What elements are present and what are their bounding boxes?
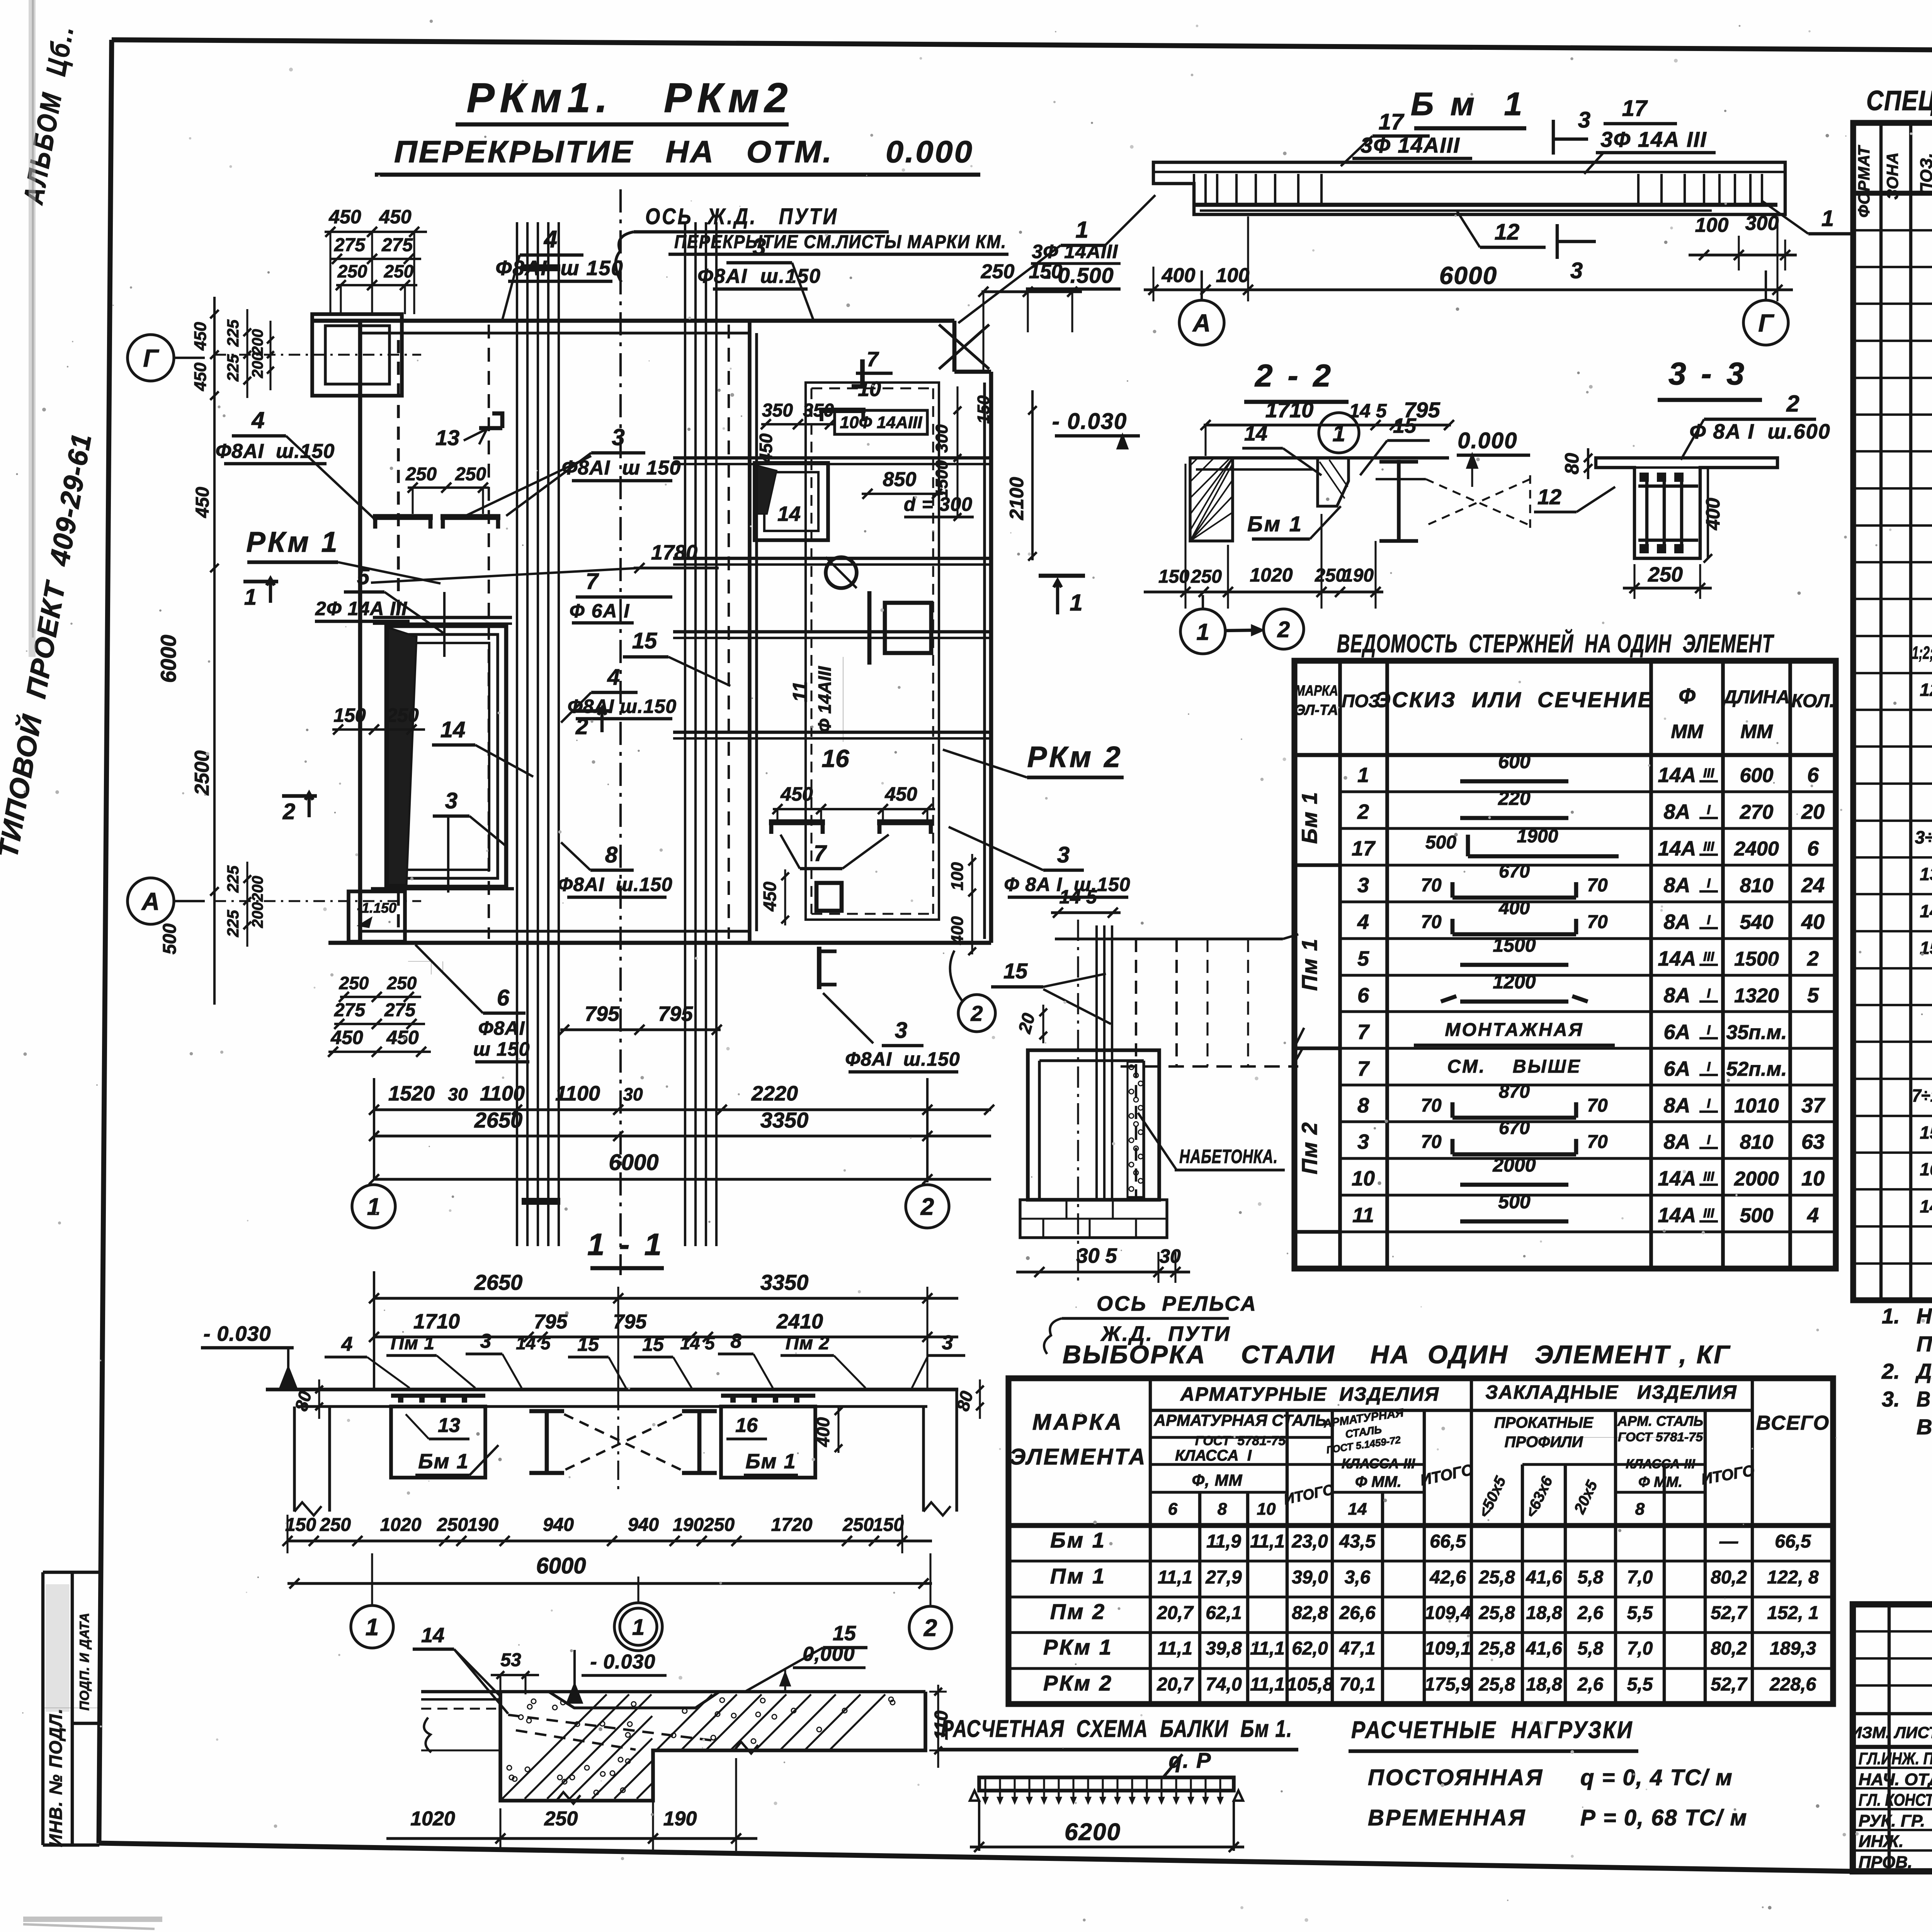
svg-text:66,5: 66,5	[1430, 1531, 1466, 1552]
svg-text:5,5: 5,5	[1627, 1603, 1653, 1623]
svg-text:8: 8	[1218, 1500, 1227, 1519]
svg-text:2400: 2400	[1734, 838, 1779, 860]
vedomost grid	[1294, 661, 1836, 1269]
border frame	[112, 40, 1932, 54]
svg-text:1720: 1720	[771, 1515, 813, 1535]
svg-text:6: 6	[1357, 984, 1369, 1007]
svg-text:1100: 1100	[555, 1082, 600, 1105]
plan: axis circles bottom	[352, 1185, 395, 1228]
svg-text:ЭЛЕМЕНТА: ЭЛЕМЕНТА	[1010, 1444, 1147, 1469]
svg-text:ш 150: ш 150	[473, 1038, 530, 1060]
svg-text:РУК. ГР.: РУК. ГР.	[1859, 1811, 1925, 1830]
svg-text:450: 450	[780, 783, 813, 805]
svg-text:ПОСТОЯННАЯ: ПОСТОЯННАЯ	[1368, 1765, 1544, 1790]
svg-text:ПОДП. И ДАТА: ПОДП. И ДАТА	[77, 1612, 92, 1711]
svg-text:6000: 6000	[536, 1553, 586, 1578]
svg-text:795: 795	[534, 1311, 568, 1333]
svg-text:Б м 1: Б м 1	[1411, 86, 1526, 122]
svg-text:5,8: 5,8	[1578, 1638, 1604, 1659]
svg-text:225: 225	[224, 354, 242, 382]
plan: ref circle 2 squiggle	[958, 995, 995, 1032]
svg-text:190: 190	[663, 1808, 697, 1830]
beam main dim line	[1144, 288, 1793, 291]
svg-text:12: 12	[1537, 485, 1561, 509]
svg-text:14А: 14А	[1658, 1204, 1696, 1227]
svg-text:200: 200	[249, 329, 266, 355]
svg-text:150: 150	[1029, 260, 1063, 283]
svg-text:Бм 1: Бм 1	[1247, 512, 1303, 536]
svg-text:14 5: 14 5	[680, 1333, 715, 1353]
svg-text:3: 3	[942, 1332, 953, 1354]
svg-text:АРМАТУРНЫЕ ИЗДЕЛИЯ: АРМАТУРНЫЕ ИЗДЕЛИЯ	[1180, 1383, 1439, 1405]
svg-text:Пм 1: Пм 1	[1297, 938, 1321, 991]
svg-text:СПЕЦИФИКАЦИЯ ЭЛЕМЕНТОВ МОНОЛ: СПЕЦИФИКАЦИЯ ЭЛЕМЕНТОВ МОНОЛИТНОЙ Ж.Б.КО…	[1866, 84, 1932, 116]
svg-text:1710: 1710	[1265, 398, 1314, 422]
svg-text:63: 63	[1801, 1130, 1825, 1153]
plan: section mark 2 left	[282, 794, 317, 798]
svg-text:3.: 3.	[1882, 1387, 1900, 1411]
svg-text:РАСЧЕТНАЯ СХЕМА БАЛКИ Бм 1.: РАСЧЕТНАЯ СХЕМА БАЛКИ Бм 1.	[941, 1716, 1293, 1742]
svg-text:7,0: 7,0	[1627, 1638, 1653, 1659]
svg-text:350: 350	[803, 400, 834, 421]
svg-text:Г: Г	[1758, 309, 1774, 337]
svg-text:6000: 6000	[1439, 262, 1497, 289]
svg-text:МОНТАЖНАЯ: МОНТАЖНАЯ	[1445, 1020, 1584, 1040]
svg-text:70: 70	[1587, 912, 1608, 932]
svg-text:15: 15	[1393, 414, 1417, 437]
svg-text:В МЕСТАХ ТЕХНОЛОГИЧЕСКИХ О: В МЕСТАХ ТЕХНОЛОГИЧЕСКИХ ОТВЕРСТИЙ СЕТКИ	[1917, 1387, 1932, 1411]
svg-text:III: III	[1703, 1169, 1715, 1184]
svg-text:150: 150	[333, 704, 366, 726]
svg-text:12: 12	[1920, 680, 1932, 700]
svg-text:250: 250	[405, 464, 437, 485]
1-1 I-beams and braces	[545, 1410, 549, 1473]
svg-text:ЛИСТ: ЛИСТ	[1893, 1723, 1932, 1742]
svg-text:250: 250	[544, 1808, 578, 1830]
svg-text:30: 30	[1159, 1245, 1181, 1267]
svg-text:190: 190	[673, 1515, 704, 1535]
svg-text:500: 500	[1498, 1191, 1531, 1213]
svg-text:0,000: 0,000	[803, 1643, 855, 1665]
svg-text:ДЛИНА: ДЛИНА	[1722, 687, 1790, 707]
plan: left opening with black wedge	[386, 626, 506, 887]
svg-text:400: 400	[1498, 898, 1530, 918]
svg-text:I: I	[1707, 986, 1711, 1001]
svg-text:1780: 1780	[651, 541, 697, 564]
svg-text:q. Р: q. Р	[1169, 1748, 1212, 1772]
svg-text:11,1: 11,1	[1250, 1531, 1285, 1552]
svg-text:66,5: 66,5	[1775, 1531, 1811, 1552]
rail detail concrete strip	[1128, 1062, 1144, 1197]
svg-text:350: 350	[762, 400, 793, 421]
svg-text:13: 13	[435, 425, 459, 450]
svg-text:10: 10	[1352, 1167, 1375, 1190]
svg-text:КЛАССА-III: КЛАССА-III	[1342, 1456, 1415, 1471]
label 1 left leader to beam	[1105, 195, 1155, 245]
plan: RKm2 circle detail	[826, 557, 857, 588]
svg-text:80,2: 80,2	[1711, 1638, 1747, 1659]
svg-text:109,1: 109,1	[1425, 1638, 1471, 1659]
3-3 body	[1596, 458, 1777, 558]
svg-text:15: 15	[632, 628, 657, 653]
svg-text:ПЕРЕКРЫТИЕ СМ.ЛИСТЫ МАРКИ КМ.: ПЕРЕКРЫТИЕ СМ.ЛИСТЫ МАРКИ КМ.	[674, 232, 1007, 252]
svg-text:14 5: 14 5	[1059, 886, 1097, 908]
svg-text:-1.150: -1.150	[357, 900, 396, 916]
svg-text:250: 250	[455, 464, 486, 485]
svg-text:1 - 1: 1 - 1	[587, 1227, 665, 1262]
svg-text:47,1: 47,1	[1339, 1638, 1375, 1659]
svg-text:Ж.Д. ПУТИ: Ж.Д. ПУТИ	[1100, 1322, 1231, 1345]
svg-text:РКм 1: РКм 1	[1043, 1635, 1113, 1659]
svg-text:ПЕРЕКРЫТИЕ НА ОТМ. 0.0: ПЕРЕКРЫТИЕ НА ОТМ. 0.000	[394, 134, 974, 169]
svg-text:4: 4	[1807, 1204, 1819, 1227]
svg-text:14А: 14А	[1658, 947, 1696, 970]
svg-text:НАБЕТОНКА.: НАБЕТОНКА.	[1179, 1146, 1278, 1167]
svg-text:3: 3	[1357, 874, 1369, 897]
svg-text:I: I	[1707, 1133, 1711, 1147]
svg-text:3Ф 14АIII: 3Ф 14АIII	[1361, 133, 1460, 157]
svg-text:3: 3	[480, 1330, 492, 1352]
svg-text:2410: 2410	[776, 1310, 823, 1333]
svg-text:27,9: 27,9	[1205, 1567, 1242, 1588]
svg-text:25,8: 25,8	[1478, 1674, 1515, 1695]
svg-text:1: 1	[1196, 619, 1209, 645]
svg-text:70: 70	[1421, 912, 1442, 932]
svg-text:3: 3	[753, 234, 766, 260]
svg-text:275: 275	[384, 1000, 416, 1020]
svg-text:1710: 1710	[413, 1310, 460, 1333]
svg-text:25,8: 25,8	[1478, 1603, 1515, 1623]
svg-text:2: 2	[1807, 947, 1819, 970]
svg-text:1500: 1500	[1734, 948, 1779, 970]
svg-text:2,6: 2,6	[1577, 1674, 1604, 1695]
svg-text:Бм 1: Бм 1	[418, 1450, 469, 1473]
svg-text:14: 14	[1920, 901, 1932, 921]
svg-text:2: 2	[920, 1194, 934, 1220]
svg-text:ИНЖ.: ИНЖ.	[1859, 1832, 1903, 1851]
svg-text:6000: 6000	[609, 1150, 658, 1175]
svg-text:17: 17	[1379, 109, 1405, 134]
svg-text:400: 400	[948, 916, 967, 945]
svg-text:400: 400	[1702, 498, 1724, 531]
svg-text:250: 250	[384, 261, 414, 281]
svg-text:940: 940	[543, 1515, 574, 1535]
svg-text:Пм 1: Пм 1	[391, 1333, 435, 1354]
svg-text:2Ф 14А III: 2Ф 14А III	[315, 598, 407, 619]
svg-text:3Ф 14АIII: 3Ф 14АIII	[1032, 241, 1118, 262]
svg-text:I: I	[1707, 1096, 1711, 1111]
svg-text:4: 4	[341, 1333, 353, 1355]
svg-text:2: 2	[923, 1615, 937, 1641]
svg-text:6А: 6А	[1663, 1057, 1690, 1080]
svg-text:6: 6	[1168, 1500, 1178, 1519]
svg-text:11,1: 11,1	[1250, 1638, 1285, 1659]
svg-text:225: 225	[224, 910, 242, 937]
svg-text:14А: 14А	[1658, 837, 1696, 860]
svg-text:Пм 2: Пм 2	[1050, 1599, 1106, 1624]
svg-text:16: 16	[1920, 1159, 1932, 1179]
svg-text:220: 220	[1498, 787, 1531, 809]
svg-text:ММ: ММ	[1740, 721, 1773, 742]
svg-text:18,8: 18,8	[1526, 1603, 1562, 1623]
node detail hatch	[502, 1694, 607, 1799]
svg-text:250: 250	[1190, 566, 1222, 587]
svg-text:450: 450	[379, 206, 412, 228]
svg-text:8А: 8А	[1663, 874, 1690, 897]
svg-text:5: 5	[357, 564, 370, 589]
svg-text:Бм 1: Бм 1	[1297, 791, 1321, 844]
svg-text:14: 14	[1348, 1500, 1367, 1519]
stamp left grid	[1888, 1604, 1891, 1871]
svg-text:37: 37	[1801, 1094, 1826, 1117]
svg-text:ЗОНА: ЗОНА	[1883, 152, 1901, 199]
svg-text:70: 70	[1421, 1095, 1442, 1116]
svg-text:450: 450	[756, 433, 776, 463]
svg-text:Пм 1: Пм 1	[1050, 1564, 1106, 1588]
svg-text:7: 7	[867, 348, 879, 371]
svg-text:I: I	[1707, 1060, 1711, 1074]
svg-text:30: 30	[448, 1084, 468, 1104]
svg-text:250: 250	[386, 704, 419, 726]
svg-text:Пм 2: Пм 2	[1297, 1122, 1321, 1174]
svg-text:10: 10	[1257, 1500, 1276, 1519]
svg-text:250: 250	[1648, 563, 1683, 586]
svg-text:450: 450	[191, 362, 210, 391]
svg-text:14: 14	[1920, 1196, 1932, 1216]
plan: RKm2 left wall	[748, 321, 752, 943]
svg-text:795: 795	[658, 1002, 693, 1026]
svg-text:450: 450	[191, 322, 210, 351]
svg-text:ПОЗ.: ПОЗ.	[1917, 153, 1932, 195]
2-2 ref circles	[1180, 609, 1225, 654]
svg-text:Ф ММ.: Ф ММ.	[1355, 1473, 1401, 1490]
svg-text:540: 540	[1740, 911, 1774, 934]
svg-text:14А: 14А	[1658, 1167, 1696, 1190]
svg-text:70,1: 70,1	[1339, 1674, 1375, 1695]
svg-text:70: 70	[1587, 875, 1608, 896]
plan: section mark 1 left	[243, 580, 278, 583]
svg-text:30: 30	[623, 1084, 643, 1104]
svg-text:8А: 8А	[1663, 984, 1690, 1007]
svg-text:11: 11	[789, 681, 811, 702]
margin inv box	[43, 1571, 99, 1574]
svg-text:1: 1	[366, 1614, 379, 1641]
svg-text:70: 70	[1421, 875, 1442, 896]
svg-text:3: 3	[1057, 842, 1070, 867]
svg-text:14А: 14А	[1658, 764, 1696, 787]
svg-text:11,1: 11,1	[1158, 1567, 1192, 1588]
svg-text:2: 2	[282, 799, 295, 824]
node detail break marks	[556, 1792, 580, 1804]
svg-text:450: 450	[884, 783, 917, 805]
svg-text:15: 15	[1920, 1122, 1932, 1143]
axis circle G	[1743, 300, 1788, 345]
beam Bm1 body	[1153, 162, 1785, 214]
plan: top-left square column	[312, 314, 402, 396]
svg-text:НАЧ. ОТД.: НАЧ. ОТД.	[1859, 1770, 1932, 1789]
svg-text:6А: 6А	[1663, 1020, 1690, 1044]
svg-text:41,6: 41,6	[1526, 1638, 1562, 1659]
svg-text:52п.м.: 52п.м.	[1726, 1058, 1787, 1080]
svg-text:10Ф 14АIII: 10Ф 14АIII	[840, 413, 923, 432]
svg-text:670: 670	[1499, 861, 1530, 882]
svg-text:17: 17	[1622, 96, 1648, 121]
svg-text:600: 600	[1498, 751, 1531, 772]
svg-text:ДАННЫЙ ЛИСТ СМОТРЕТЬ ВМЕ: ДАННЫЙ ЛИСТ СМОТРЕТЬ ВМЕСТЕ С ЛИСТОМ КЖ-…	[1915, 1359, 1932, 1383]
svg-text:14: 14	[1244, 422, 1267, 445]
svg-text:КОЛ.: КОЛ.	[1791, 691, 1835, 711]
svg-text:24: 24	[1801, 874, 1825, 897]
svg-text:500: 500	[160, 923, 180, 954]
svg-text:810: 810	[1740, 874, 1774, 897]
svg-text:3: 3	[445, 788, 457, 813]
svg-text:14 5: 14 5	[516, 1333, 551, 1353]
svg-text:600: 600	[1740, 764, 1774, 787]
rail detail top lines	[1055, 937, 1283, 940]
plan: misc thick hooks left section	[479, 413, 502, 428]
svg-text:100: 100	[948, 862, 967, 891]
svg-text:16: 16	[735, 1414, 758, 1437]
plan: section mark 1 right	[1039, 574, 1085, 578]
svg-text:КЛАССА I: КЛАССА I	[1175, 1447, 1252, 1464]
svg-text:4: 4	[543, 226, 557, 253]
svg-text:7÷11: 7÷11	[1912, 1085, 1932, 1105]
svg-text:39,8: 39,8	[1206, 1638, 1242, 1659]
svg-text:250: 250	[339, 973, 369, 993]
1-1 right beam Bm1	[721, 1406, 815, 1478]
svg-text:1500: 1500	[932, 460, 951, 498]
svg-text:70: 70	[1587, 1132, 1608, 1152]
svg-text:15: 15	[577, 1333, 599, 1355]
plan: RKm2 mesh double lines	[673, 456, 991, 459]
svg-text:2 - 2: 2 - 2	[1254, 358, 1334, 393]
svg-text:Р = 0, 68 ТС/ м: Р = 0, 68 ТС/ м	[1580, 1805, 1747, 1830]
svg-text:1020: 1020	[410, 1808, 455, 1830]
svg-text:11,1: 11,1	[1158, 1638, 1192, 1659]
svg-text:III: III	[1703, 839, 1715, 854]
svg-text:25,8: 25,8	[1478, 1638, 1515, 1659]
svg-text:2220: 2220	[751, 1082, 798, 1105]
svg-text:2: 2	[575, 714, 588, 739]
svg-text:62,0: 62,0	[1292, 1638, 1328, 1659]
svg-text:14: 14	[440, 717, 466, 742]
svg-text:I: I	[1707, 803, 1711, 817]
svg-text:250: 250	[437, 1515, 468, 1535]
svg-text:ЭЛ-ТА: ЭЛ-ТА	[1295, 702, 1338, 718]
svg-text:870: 870	[1499, 1082, 1530, 1102]
svg-text:15: 15	[1003, 959, 1028, 983]
svg-text:5: 5	[1807, 984, 1819, 1007]
scan edge shadow	[32, 0, 34, 638]
svg-text:III: III	[1703, 1206, 1715, 1221]
svg-text:70: 70	[1421, 1132, 1442, 1152]
svg-text:ЗАКЛАДНЫЕ ИЗДЕЛИЯ: ЗАКЛАДНЫЕ ИЗДЕЛИЯ	[1485, 1381, 1737, 1403]
svg-text:III: III	[1703, 949, 1715, 964]
plan: corner bar hooks top (pos 4/3)	[373, 514, 433, 520]
plan: rails bundle A	[516, 222, 518, 1246]
node detail body outline	[421, 1690, 925, 1693]
svg-text:5: 5	[1357, 947, 1369, 970]
svg-text:- 0.030: - 0.030	[1052, 409, 1128, 434]
svg-text:ОСЬ РЕЛЬСА: ОСЬ РЕЛЬСА	[1097, 1292, 1257, 1315]
svg-text:1020: 1020	[1250, 564, 1293, 586]
svg-text:7: 7	[1357, 1020, 1370, 1044]
svg-text:3,6: 3,6	[1345, 1567, 1371, 1588]
svg-text:I: I	[1707, 876, 1711, 891]
svg-text:14: 14	[421, 1624, 444, 1647]
svg-text:122, 8: 122, 8	[1767, 1567, 1819, 1588]
svg-text:4: 4	[1357, 910, 1369, 934]
svg-text:МАРКА: МАРКА	[1295, 683, 1338, 699]
rail detail verticals	[1095, 925, 1098, 1200]
svg-text:1020: 1020	[380, 1515, 422, 1535]
svg-text:1: 1	[1332, 420, 1345, 446]
svg-text:3: 3	[612, 424, 624, 450]
section mark 3 bottom	[1556, 224, 1559, 259]
svg-text:100: 100	[1216, 264, 1250, 287]
svg-text:300: 300	[1745, 212, 1779, 235]
svg-text:1200: 1200	[1493, 971, 1536, 993]
svg-text:228,6: 228,6	[1769, 1674, 1816, 1695]
plan: section mark 2 mid	[575, 709, 610, 713]
svg-text:ВЕДОМОСТЬ СТЕРЖНЕЙ НА ОДИН: ВЕДОМОСТЬ СТЕРЖНЕЙ НА ОДИН ЭЛЕМЕНТ	[1337, 629, 1774, 658]
svg-text:450: 450	[760, 881, 780, 912]
svg-text:1500: 1500	[1493, 934, 1536, 956]
svg-text:2,6: 2,6	[1577, 1603, 1604, 1623]
1-1 slab body	[266, 1388, 958, 1391]
svg-text:I: I	[1707, 1023, 1711, 1037]
svg-text:1: 1	[1070, 590, 1082, 616]
svg-text:8А: 8А	[1663, 1094, 1690, 1117]
svg-text:Ф ММ.: Ф ММ.	[1638, 1474, 1682, 1490]
vyborka grid	[1009, 1378, 1833, 1704]
svg-text:ММ: ММ	[1671, 721, 1704, 742]
svg-text:q = 0, 4 ТС/ м: q = 0, 4 ТС/ м	[1580, 1765, 1733, 1790]
svg-text:Бм 1: Бм 1	[1050, 1528, 1106, 1552]
svg-text:СМ. ВЫШЕ: СМ. ВЫШЕ	[1447, 1056, 1582, 1077]
svg-text:НОРМАТИВНАЯ ВРЕМЕННАЯ НАГР: НОРМАТИВНАЯ ВРЕМЕННАЯ НАГРУЗКА НА ПЕРЕКР…	[1917, 1304, 1932, 1328]
svg-text:6000: 6000	[156, 635, 180, 683]
svg-text:80,2: 80,2	[1711, 1567, 1747, 1588]
svg-text:0.000: 0.000	[1458, 428, 1517, 453]
svg-text:270: 270	[1740, 801, 1774, 823]
svg-text:225: 225	[224, 319, 242, 347]
section mark 3 top	[1552, 120, 1555, 155]
svg-text:ФОРМАТ: ФОРМАТ	[1855, 145, 1873, 218]
svg-text:275: 275	[334, 235, 366, 255]
svg-text:500: 500	[1425, 832, 1456, 853]
svg-text:250: 250	[842, 1515, 874, 1535]
svg-text:400: 400	[813, 1417, 833, 1447]
svg-text:2000: 2000	[1734, 1168, 1779, 1190]
svg-text:- 0.030: - 0.030	[203, 1322, 271, 1345]
svg-text:6200: 6200	[1065, 1819, 1121, 1845]
svg-text:250: 250	[703, 1515, 735, 1535]
svg-text:42,6: 42,6	[1429, 1567, 1466, 1588]
svg-text:70: 70	[1587, 1095, 1608, 1116]
svg-text:Ф8АI: Ф8АI	[478, 1017, 525, 1039]
svg-text:—: —	[1719, 1531, 1738, 1552]
svg-text:15: 15	[642, 1333, 664, 1355]
svg-text:250: 250	[337, 261, 367, 281]
svg-text:Ф, ММ: Ф, ММ	[1192, 1471, 1242, 1489]
svg-text:ВЫРЕЗАТЬ ПО МЕСТУ.: ВЫРЕЗАТЬ ПО МЕСТУ.	[1917, 1415, 1932, 1439]
svg-text:795: 795	[613, 1311, 647, 1333]
svg-text:7,0: 7,0	[1627, 1567, 1653, 1588]
svg-text:4: 4	[607, 665, 620, 690]
rail detail bricks	[1020, 1200, 1167, 1238]
svg-text:152, 1: 152, 1	[1767, 1603, 1818, 1623]
